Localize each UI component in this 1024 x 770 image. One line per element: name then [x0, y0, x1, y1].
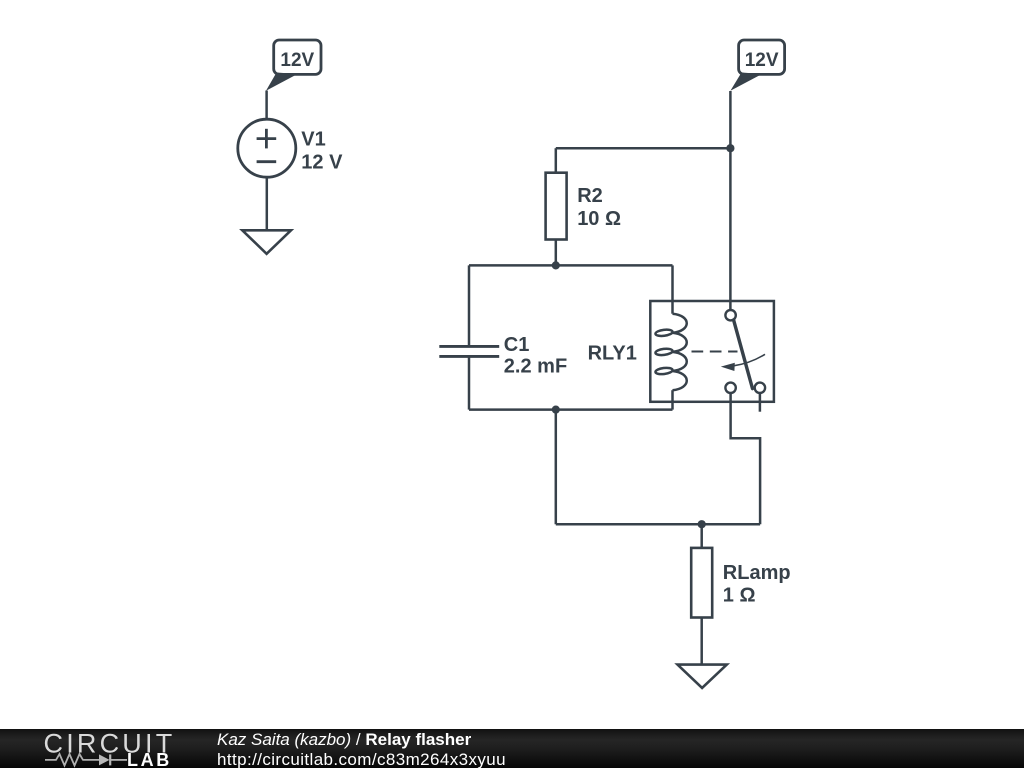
resistor R2	[546, 148, 567, 265]
svg-text:10 Ω: 10 Ω	[577, 208, 621, 230]
relay switch	[692, 310, 766, 412]
svg-text:V1: V1	[301, 129, 325, 151]
svg-text:LAB: LAB	[127, 750, 172, 768]
wire	[556, 523, 760, 526]
svg-text:R2: R2	[577, 185, 603, 207]
wire	[469, 408, 673, 411]
svg-text:1 Ω: 1 Ω	[723, 585, 756, 607]
svg-text:2.2 mF: 2.2 mF	[504, 356, 567, 378]
voltage source V1	[238, 119, 296, 177]
footer text	[217, 730, 506, 770]
relay RLY1 box	[650, 301, 774, 402]
label C1 2.2 mF	[504, 334, 567, 378]
junction	[726, 144, 734, 152]
wire	[265, 91, 268, 120]
wire	[266, 177, 269, 230]
svg-text:12V: 12V	[745, 50, 779, 71]
junction	[552, 261, 560, 269]
wire	[731, 393, 761, 524]
CircuitLab logo	[0, 729, 200, 768]
footer bar	[0, 729, 1024, 768]
ground	[678, 665, 727, 688]
svg-text:C1: C1	[504, 334, 530, 356]
capacitor C1	[439, 265, 499, 409]
wire	[556, 147, 731, 150]
label V1 12 V	[301, 129, 343, 174]
junction	[698, 520, 706, 528]
label RLamp 1 Ω	[723, 562, 791, 607]
net flag 12V (right)	[730, 40, 784, 91]
resistor RLamp	[691, 524, 712, 664]
svg-text:RLY1: RLY1	[588, 343, 637, 365]
ground	[242, 230, 291, 254]
net flag 12V (left)	[266, 40, 321, 91]
svg-text:RLamp: RLamp	[723, 562, 791, 584]
junction	[552, 406, 560, 414]
svg-text:12V: 12V	[280, 50, 314, 71]
wire	[469, 264, 673, 267]
label R2 10 Ω	[577, 185, 621, 230]
svg-text:12 V: 12 V	[301, 152, 343, 174]
wire	[555, 410, 558, 525]
relay coil	[655, 265, 687, 409]
wire	[729, 91, 732, 310]
